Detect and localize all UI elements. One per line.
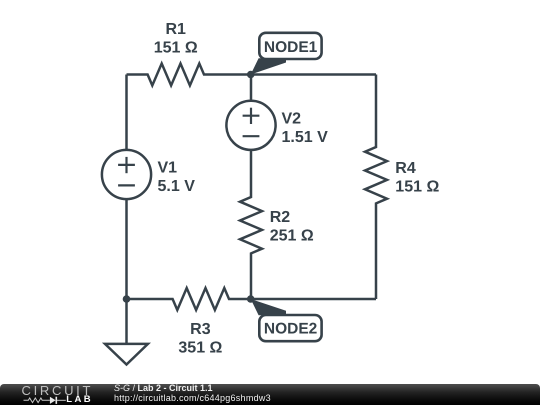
resistor R1 (horizontal, with leads)	[127, 21, 252, 86]
svg-text:151 Ω: 151 Ω	[154, 40, 198, 57]
footer title line	[114, 384, 213, 393]
svg-text:R2: R2	[270, 209, 291, 226]
ground	[105, 299, 148, 365]
footer bar	[0, 384, 540, 405]
V1 circle body	[102, 150, 151, 199]
wire top horizontal: NODE1 junction to top-right corner	[251, 73, 376, 76]
footer url line	[114, 394, 271, 403]
V2 circle body	[226, 101, 275, 150]
svg-text:1.51 V: 1.51 V	[282, 129, 329, 146]
wire left vertical: V1 - terminal down to bottom-left junction	[125, 199, 128, 299]
svg-text:V1: V1	[158, 160, 178, 177]
svg-text:NODE1: NODE1	[264, 39, 318, 56]
ground stem wire	[125, 299, 128, 344]
NODE2 callout pointer	[251, 299, 286, 315]
CircuitLab logo resistor-diode symbol	[20, 395, 95, 405]
CircuitLab logo word CIRCUIT	[22, 383, 94, 398]
voltage source V2	[226, 101, 328, 150]
svg-text:351 Ω: 351 Ω	[178, 340, 222, 357]
V1 minus sign	[118, 184, 135, 186]
svg-text:V2: V2	[282, 110, 302, 127]
logo diode triangle	[50, 397, 56, 404]
svg-text:R4: R4	[395, 160, 416, 177]
NODE1 junction dot	[247, 71, 255, 79]
voltage source V1	[102, 150, 195, 199]
node NODE1	[247, 33, 322, 78]
NODE1 callout box	[259, 33, 321, 59]
svg-text:R3: R3	[190, 321, 211, 338]
NODE2 callout box	[259, 315, 321, 341]
logo wire to LAB	[57, 399, 66, 401]
logo diode bar	[55, 397, 57, 404]
ground triangle	[105, 344, 148, 365]
resistor R4 (vertical right branch, with leads)	[365, 75, 439, 300]
V2 plus sign	[243, 115, 260, 117]
svg-text:151 Ω: 151 Ω	[395, 178, 439, 195]
resistor R3 (horizontal bottom, with leads)	[127, 288, 251, 357]
NODE1 callout pointer	[251, 58, 286, 74]
svg-text:NODE2: NODE2	[264, 321, 317, 338]
CircuitLab logo word LAB	[66, 395, 93, 405]
wire left vertical: top-left corner down to V1 + terminal	[125, 75, 128, 150]
svg-text:5.1 V: 5.1 V	[158, 178, 196, 195]
V1 plus sign	[118, 164, 135, 166]
V2 minus sign	[243, 135, 260, 137]
NODE2 junction dot	[247, 295, 255, 303]
junction dot at V1/R3/ground node	[123, 295, 131, 303]
resistor R2 (vertical, with leads, below V2)	[240, 150, 314, 299]
wire V2 top lead from NODE1 junction	[250, 75, 253, 101]
svg-text:R1: R1	[165, 21, 186, 38]
wire bottom horizontal: NODE2 junction to bottom-right corner	[251, 298, 376, 301]
node NODE2	[247, 295, 322, 341]
logo resistor zigzag	[24, 398, 50, 403]
svg-text:251 Ω: 251 Ω	[270, 228, 314, 245]
